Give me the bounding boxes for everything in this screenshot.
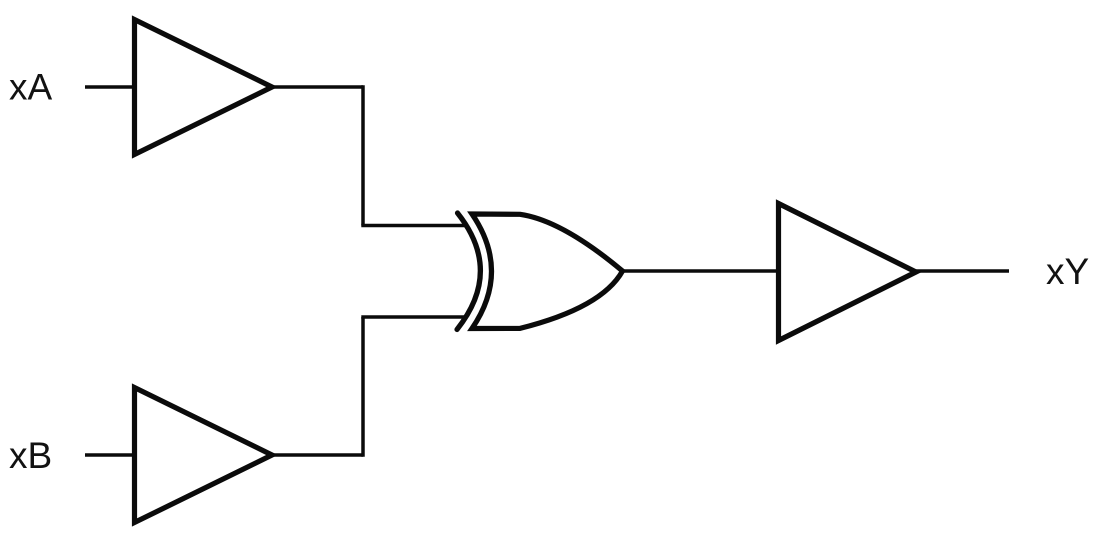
XOR gate U3 input arc [457, 213, 480, 330]
buffer U2 (bottom) [135, 388, 273, 523]
wire U2 output to node [272, 453, 363, 457]
wire XOR top input [361, 224, 466, 228]
buffer U1 (top) [135, 20, 273, 155]
wire U1 output to node [272, 85, 363, 89]
buffer U4 (output) [779, 204, 917, 341]
wire XOR bottom input [361, 315, 466, 319]
XOR gate U3 body [472, 214, 623, 329]
svg-text:xY: xY [1046, 251, 1089, 292]
wire xB to buffer [85, 453, 134, 457]
wire U4 output to xY [916, 269, 1009, 273]
svg-text:xB: xB [9, 435, 52, 476]
wire vertical down to XOR top input [361, 85, 365, 225]
svg-text:xA: xA [9, 67, 53, 108]
wire vertical up to XOR bottom input [361, 317, 365, 457]
wire XOR output to buffer U4 [622, 269, 777, 273]
wire xA to buffer [85, 85, 134, 89]
